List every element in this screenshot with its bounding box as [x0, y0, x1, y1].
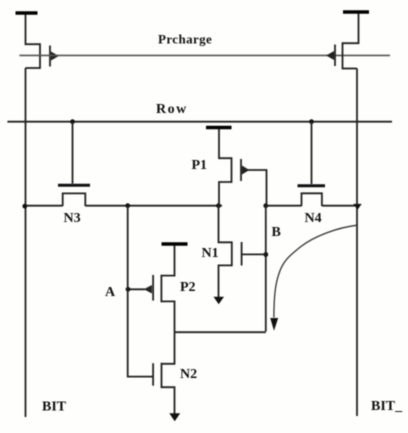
transistor N1 gate: [241, 242, 243, 266]
node junction main line at BIT rail: [22, 204, 27, 209]
svg-text:B: B: [272, 225, 281, 240]
wire N2 source down: [162, 387, 175, 414]
wire BIT rail (left vertical): [25, 68, 27, 417]
wire P1 gate to node B: [241, 170, 267, 206]
transistor P1 channel: [231, 157, 233, 183]
svg-text:A: A: [105, 285, 116, 300]
wire VDD to P2 source: [161, 246, 174, 276]
wire P2 drain down: [161, 301, 174, 332]
wire main node line segment node B to N4: [264, 205, 302, 207]
wire node A to P2 gate: [128, 288, 145, 290]
transistor N3 channel bump: [63, 193, 86, 206]
PMOS arrow on P2 gate: [144, 285, 152, 294]
svg-text:BIT_: BIT_: [371, 399, 403, 414]
node junction P2 gate on node A: [126, 287, 131, 292]
wire Row to N3 gate: [72, 122, 74, 184]
svg-text:Prcharge: Prcharge: [158, 32, 212, 47]
svg-text:N4: N4: [305, 211, 322, 226]
transistor P1 gate: [240, 159, 242, 181]
wire N1 source down: [219, 265, 232, 297]
transistor N1 channel: [231, 241, 233, 266]
svg-text:P1: P1: [192, 158, 208, 173]
left precharge PMOS channel: [39, 43, 41, 69]
right precharge PMOS gate: [334, 45, 336, 67]
wire P2/N2 drains to node B bottom: [175, 331, 266, 333]
left precharge PMOS drain lead to BIT rail: [26, 67, 41, 69]
wire VDD to P1 source: [219, 129, 232, 158]
node junction N1 gate on node B: [263, 252, 268, 257]
transistor N2 channel: [161, 363, 163, 388]
VDD power bar above P2: [162, 242, 188, 245]
curved arrow from BIT_ toward node B: [274, 225, 357, 317]
wire VDD to right precharge PMOS source: [343, 14, 359, 44]
node junction Row to N3 gate: [70, 119, 75, 124]
wire N1 gate to node B: [242, 253, 266, 255]
wire main line down to N1 drain: [219, 206, 232, 243]
VDD power bar top-right: [343, 10, 369, 13]
svg-text:N1: N1: [202, 246, 219, 261]
right precharge PMOS drain lead to BIT_ rail: [343, 68, 358, 70]
wire BIT_ rail (right vertical): [356, 69, 358, 417]
transistor N2 gate: [152, 363, 154, 386]
wire Row to N4 gate: [311, 122, 313, 184]
right precharge PMOS channel: [342, 42, 344, 69]
node junction main line at node A: [125, 203, 130, 208]
transistor P2 gate: [152, 275, 154, 301]
node junction Row to N4 gate: [309, 119, 314, 124]
wire node A vertical to N2 gate: [128, 206, 153, 377]
VDD power bar above P1: [206, 126, 232, 129]
wire P1 drain to main line: [219, 182, 232, 206]
arrow current direction into BIT_ rail: [353, 204, 361, 210]
wire Row line: [7, 121, 392, 123]
wire node B vertical: [265, 206, 267, 332]
node junction main line at node B: [263, 203, 268, 208]
svg-text:N3: N3: [64, 211, 81, 226]
PMOS arrow on right precharge gate: [326, 51, 334, 60]
PMOS arrow on left precharge gate: [51, 52, 59, 61]
wire main node line segment left (BIT to N3): [26, 205, 63, 207]
transistor N4 channel bump: [302, 193, 322, 206]
left precharge PMOS gate: [49, 46, 51, 67]
svg-text:BIT: BIT: [42, 400, 67, 415]
wire main node line segment N4 to BIT_: [322, 205, 357, 207]
svg-text:P2: P2: [180, 280, 196, 295]
PMOS arrow on P1 gate: [242, 166, 249, 175]
transistor N3 gate bar: [58, 184, 90, 187]
svg-text:N2: N2: [180, 367, 197, 382]
wire Precharge line: [19, 54, 390, 56]
VDD power bar top-left: [16, 11, 38, 14]
transistor N4 gate bar: [298, 184, 326, 187]
ground arrow below N2: [169, 413, 180, 421]
svg-text:Row: Row: [156, 102, 188, 117]
transistor P2 channel: [160, 275, 162, 303]
curved arrow head: [270, 318, 278, 331]
wire main node line segment N3 to P1 drain: [85, 205, 222, 207]
ground arrow below N1: [214, 297, 225, 304]
wire VDD to left precharge PMOS source: [26, 15, 41, 45]
wire N2 drain up to cross wire: [162, 332, 175, 364]
node junction main line at P1 drain: [216, 203, 221, 208]
